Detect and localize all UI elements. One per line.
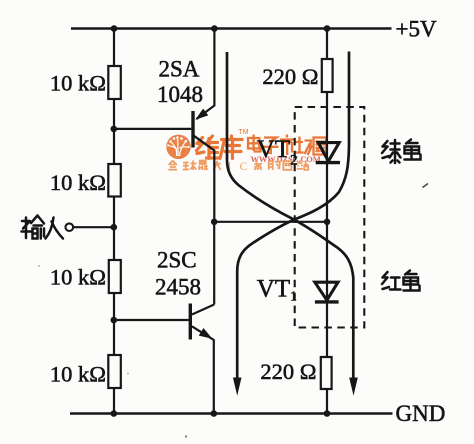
input label (shu ru) <box>22 216 64 239</box>
wire: VT2 collector to node M <box>194 136 214 222</box>
resistor R5 220 <box>322 59 333 92</box>
svg-text:1048: 1048 <box>157 82 203 107</box>
svg-text:GND: GND <box>396 401 446 426</box>
svg-text:TM: TM <box>239 129 249 136</box>
resistor R1 10k <box>108 66 121 99</box>
node: VT1 base <box>111 317 118 324</box>
svg-text:VT1: VT1 <box>257 276 297 304</box>
svg-text:10 kΩ: 10 kΩ <box>50 362 106 387</box>
dashed LED box <box>295 107 365 328</box>
svg-text:10 kΩ: 10 kΩ <box>50 170 106 195</box>
svg-text:10 kΩ: 10 kΩ <box>50 71 106 96</box>
resistor R3 10k <box>109 260 121 293</box>
node: GND / VT1 emitter <box>211 410 218 417</box>
+5V rail <box>71 27 392 29</box>
wire: input to divider <box>74 226 115 228</box>
svg-text:2SA: 2SA <box>159 57 200 82</box>
node: GND / R6 <box>324 410 331 417</box>
resistor R4 10k <box>108 355 121 388</box>
node: VT2 base <box>111 126 118 133</box>
svg-text:10 kΩ: 10 kΩ <box>50 265 106 290</box>
wire: left divider column <box>113 29 115 414</box>
LED VT2 green <box>316 143 340 163</box>
GND rail <box>70 412 393 414</box>
label red color <box>382 271 420 291</box>
svg-text:220 Ω: 220 Ω <box>260 359 316 384</box>
resistor R2 10k <box>108 164 121 197</box>
node: +5V / VT2 emitter <box>211 25 218 32</box>
resistor R6 220 <box>321 357 332 389</box>
svg-text:C: C <box>240 159 248 173</box>
LED VT1 red <box>315 282 339 302</box>
node: +5V / divider <box>111 25 118 32</box>
svg-text:220 Ω: 220 Ω <box>262 64 318 89</box>
current path arrow A2 <box>233 52 349 396</box>
svg-text:2458: 2458 <box>155 275 201 300</box>
node M: collectors <box>211 219 218 226</box>
svg-text:+5V: +5V <box>396 17 437 42</box>
label green color <box>382 140 421 164</box>
transistor VT2 2SA1048 <box>114 29 214 148</box>
node N: LED midpoint <box>324 219 331 226</box>
transistor VT1 2SC2458 <box>114 304 214 414</box>
node: GND / divider <box>111 410 118 417</box>
wire: node M to node N horizontal <box>214 221 327 223</box>
node: +5V / R5 <box>324 25 331 32</box>
current path arrow A1 <box>227 52 358 396</box>
input terminal <box>66 223 74 231</box>
wire: node M to VT1 collector <box>213 222 215 305</box>
svg-text:2SC: 2SC <box>157 248 197 273</box>
node: input <box>111 224 118 231</box>
wire: right LED column <box>326 29 328 414</box>
